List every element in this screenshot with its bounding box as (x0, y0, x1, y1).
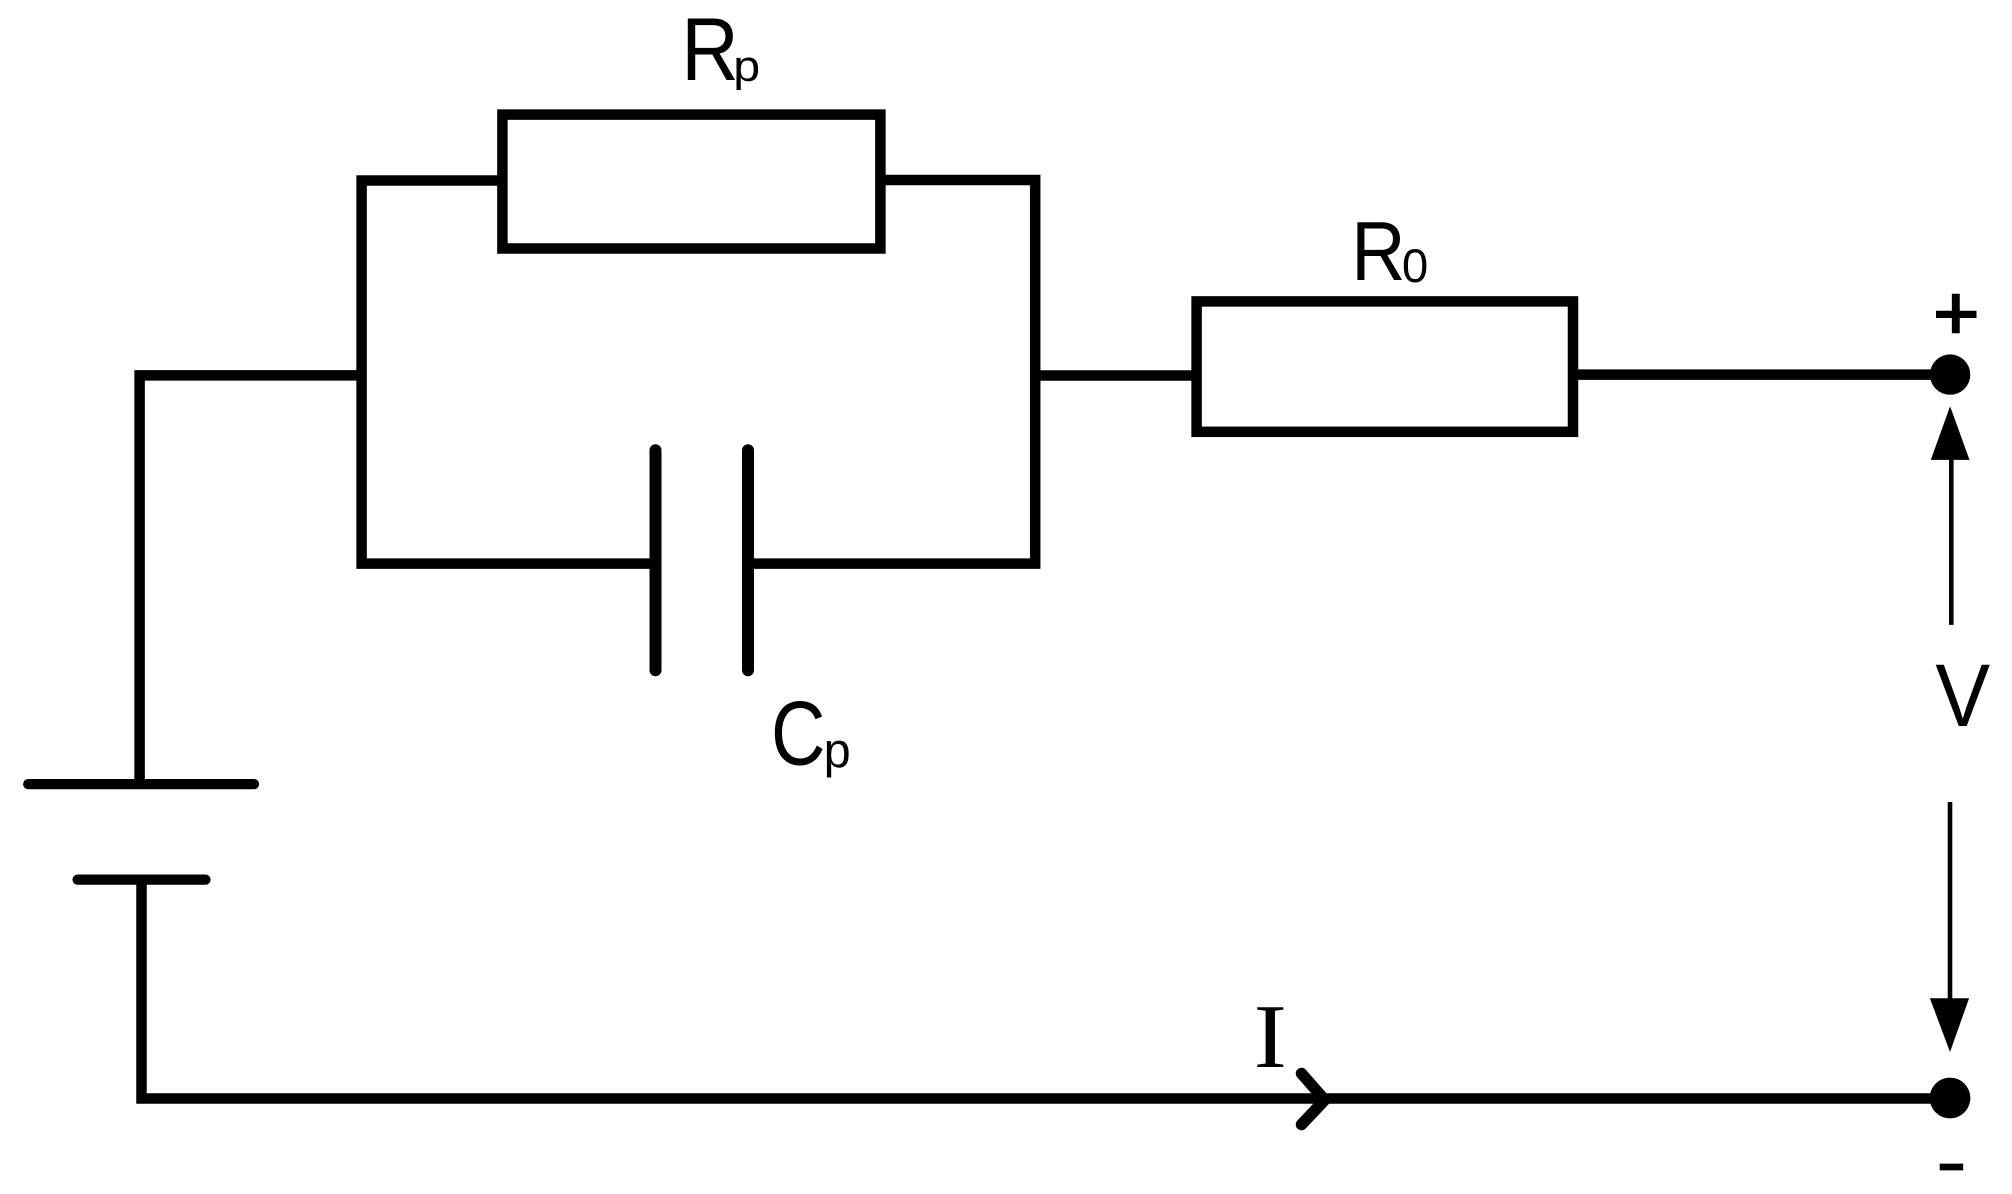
V arrow upper shaft (1949, 457, 1954, 625)
wire: R0 to positive terminal (1573, 369, 1950, 380)
node: positive terminal dot (1930, 354, 1970, 394)
svg-text:C: C (771, 683, 825, 784)
V arrow lower shaft (1948, 802, 1953, 1000)
svg-text:p: p (824, 725, 851, 779)
wire: left wire from battery positive up and right to parallel block (140, 375, 362, 784)
svg-text:R: R (681, 0, 739, 99)
svg-text:0: 0 (1402, 240, 1428, 293)
resistor Rp (box symbol) (502, 115, 880, 249)
resistor R0 (box symbol) (1197, 301, 1573, 431)
capacitor Cp left plate (650, 450, 662, 670)
label - (negative terminal) (1940, 1164, 1964, 1171)
wire: parallel block right branch (from Rp right side, down right side to bottom rail) (748, 180, 1035, 564)
V arrow lower head (points down toward - terminal) (1930, 998, 1969, 1052)
svg-text:p: p (733, 41, 760, 90)
node: negative terminal dot (1930, 1078, 1971, 1119)
label + (positive terminal) (1936, 311, 1977, 318)
capacitor Cp right plate (742, 450, 754, 670)
battery B1 negative plate (short) (78, 874, 206, 884)
svg-text:R: R (1351, 205, 1405, 299)
current direction arrow (chevron on bottom wire) (1302, 1074, 1325, 1125)
wire: from battery negative down and along the bottom to the negative terminal (142, 880, 1951, 1099)
wire: parallel block to R0 (1035, 370, 1196, 381)
wire: parallel block left branch (top-left corner and left side down to bottom rail) (362, 181, 656, 564)
battery B1 positive plate (long) (28, 779, 254, 789)
svg-text:I: I (1254, 986, 1287, 1087)
V arrow upper head (points up toward + terminal) (1931, 406, 1970, 460)
svg-text:V: V (1935, 647, 1990, 746)
